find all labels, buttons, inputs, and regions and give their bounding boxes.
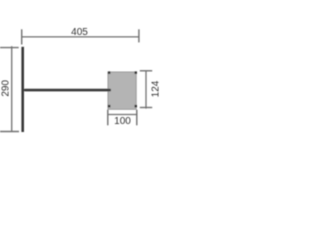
arm — [24, 89, 111, 92]
svg-text:124: 124 — [151, 80, 161, 97]
corner screw dot bottom-right — [135, 105, 138, 108]
corner screw dot top-right — [135, 71, 138, 74]
dimension 124 top tick — [140, 70, 152, 72]
dimension 124 line — [145, 71, 147, 109]
wall plate — [21, 47, 24, 132]
svg-text:405: 405 — [71, 27, 88, 38]
dimension 100 line — [108, 114, 137, 116]
svg-text:100: 100 — [114, 116, 131, 127]
dimension 124 bottom tick — [140, 107, 152, 109]
svg-text:290: 290 — [1, 80, 12, 97]
dimension 405 left tick — [21, 29, 23, 44]
dimension 290 bottom tick — [0, 131, 19, 133]
dimension 290 top tick — [0, 47, 19, 49]
dimension 405 line — [22, 36, 139, 38]
corner screw dot top-left — [108, 71, 111, 74]
corner screw dot bottom-left — [108, 105, 111, 108]
dimension 290 line — [11, 46, 13, 131]
dimension 405 right tick — [138, 29, 140, 42]
mount box — [108, 72, 136, 109]
dimension 100 right tick — [136, 110, 138, 126]
dimension 100 left tick — [107, 110, 109, 126]
